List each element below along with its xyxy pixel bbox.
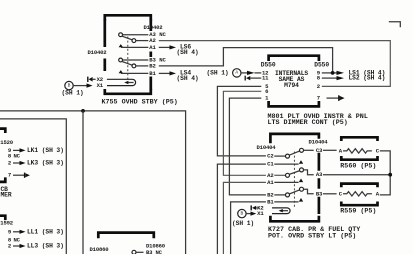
pin X2 terminal symbol [87, 77, 89, 82]
svg-text:LK3 (SH 3): LK3 (SH 3) [27, 160, 64, 167]
node A (SH 1) circle [233, 69, 241, 77]
svg-text:D10404: D10404 [257, 144, 277, 151]
switch arm B [289, 190, 300, 194]
svg-text:LTS DIMMER CONT (P5): LTS DIMMER CONT (P5) [268, 119, 348, 127]
wire K727 C1 going down [217, 164, 266, 254]
wire corner mark top right [389, 22, 401, 28]
wire A3 to resistor junction [323, 174, 390, 176]
svg-text:B2: B2 [267, 191, 274, 198]
svg-text:A: A [376, 190, 380, 197]
wire M801 pin 5 to K727 C2 [217, 86, 266, 155]
svg-text:POT. OVRD STBY LT (P5): POT. OVRD STBY LT (P5) [268, 232, 356, 240]
wire B2 to junction at pin 9 [159, 48, 333, 72]
svg-text:X1: X1 [97, 82, 104, 89]
junction dot pin 9 / B2 [331, 71, 335, 75]
wire B1 stub [121, 72, 148, 74]
svg-text:D10402: D10402 [144, 24, 164, 31]
wire B to X1 arrow [246, 213, 250, 215]
svg-text:D550: D550 [314, 62, 329, 69]
svg-text:(SH 4): (SH 4) [177, 75, 199, 82]
switch arm C [289, 151, 300, 155]
svg-text:C: C [339, 190, 343, 197]
resistor element R559 [343, 192, 372, 196]
svg-text:(SH 4): (SH 4) [177, 49, 199, 56]
svg-text:NC: NC [159, 31, 166, 38]
svg-text:B1: B1 [267, 198, 274, 205]
svg-text:1592: 1592 [0, 220, 13, 227]
svg-text:(SH 1): (SH 1) [207, 70, 229, 77]
svg-text:NC: NC [14, 237, 21, 244]
svg-text:C3: C3 [316, 147, 323, 154]
svg-text:B: B [241, 210, 244, 216]
svg-text:B: B [68, 82, 71, 88]
coil K755 [107, 79, 136, 85]
contact A1: NC triangle [119, 44, 123, 47]
switch pole A3: contact circle [119, 33, 123, 37]
svg-text:LK1 (SH 3): LK1 (SH 3) [27, 147, 64, 154]
svg-text:NC: NC [14, 153, 21, 160]
svg-text:LS2 (SH 4): LS2 (SH 4) [349, 75, 386, 82]
svg-text:D10860: D10860 [90, 246, 110, 253]
svg-text:D10404: D10404 [309, 138, 329, 145]
wire B1 to LS4 arrow [159, 72, 170, 74]
wire pin 8 to LS2 [322, 77, 337, 79]
svg-text:MER: MER [1, 192, 12, 199]
svg-text:A: A [235, 70, 238, 76]
svg-text:B1: B1 [149, 70, 156, 77]
svg-text:8: 8 [317, 75, 321, 82]
mechanical linkage (dashed) K755 [127, 37, 129, 80]
panel box left modules [0, 119, 66, 254]
svg-text:NC: NC [159, 57, 166, 64]
wire B3 stub [123, 59, 149, 61]
switch pole A2: contact circle [132, 39, 136, 43]
svg-text:(SH 1): (SH 1) [232, 220, 254, 227]
wire branch down from dot [82, 111, 84, 254]
resistor R559 box [341, 184, 377, 188]
module box M801 [269, 56, 319, 61]
switch pole C3 contact circle [300, 148, 304, 152]
svg-text:A1: A1 [267, 179, 274, 186]
wire R560 C to R559 A (right loop) [380, 151, 390, 195]
module box D1520 (cut) [0, 129, 5, 133]
node B (SH 1) circle [238, 209, 246, 217]
node B (SH 1) circle [65, 81, 73, 89]
svg-text:A1: A1 [149, 44, 156, 51]
wire B to X1 arrow [73, 85, 86, 87]
junction dot A3/resistor loop [388, 173, 392, 177]
svg-text:2: 2 [8, 243, 12, 250]
switch pole A3 contact circle [300, 168, 304, 172]
svg-text:C1: C1 [267, 161, 274, 168]
svg-text:11: 11 [262, 75, 269, 82]
wire K727 A1 going down [223, 182, 266, 254]
svg-text:X1: X1 [257, 210, 264, 217]
svg-text:9: 9 [8, 228, 12, 235]
switch arm A [289, 171, 300, 175]
junction dot on bus [81, 109, 85, 113]
relay box K727 [270, 134, 319, 143]
svg-text:NC: NC [156, 249, 163, 254]
svg-text:C: C [376, 147, 380, 154]
svg-text:A: A [339, 147, 343, 154]
switch arm A [122, 36, 133, 40]
svg-text:R560 (P5): R560 (P5) [340, 162, 376, 170]
svg-text:1520: 1520 [0, 139, 13, 146]
svg-text:(SH 1): (SH 1) [62, 89, 84, 96]
switch pole C2 contact circle [286, 154, 290, 158]
switch contact circle (cut) [132, 250, 136, 254]
wire A1 stub [121, 46, 148, 48]
pin X2 terminal symbol [250, 205, 252, 210]
svg-text:LL1 (SH 3): LL1 (SH 3) [27, 228, 64, 235]
svg-text:2: 2 [317, 83, 321, 90]
wire A1 to LS6 arrow [159, 46, 170, 48]
resistor element R560 [343, 149, 372, 153]
svg-text:M794: M794 [284, 82, 299, 89]
switch arm B [122, 62, 133, 66]
svg-text:A2: A2 [267, 172, 274, 179]
switch pole B2: contact circle [132, 64, 136, 68]
svg-text:2: 2 [8, 160, 12, 167]
svg-text:7: 7 [8, 172, 11, 179]
wire A3 stub [123, 34, 149, 36]
wire A2 to M801 pin 2 (right loop) [159, 41, 390, 87]
wire A to pin 12 [241, 72, 247, 74]
svg-text:B3: B3 [146, 249, 153, 254]
coil K727 [272, 208, 290, 214]
svg-text:B3: B3 [316, 190, 323, 197]
svg-text:B2: B2 [149, 62, 156, 69]
svg-text:D550: D550 [261, 62, 276, 69]
svg-text:LL3 (SH 3): LL3 (SH 3) [27, 243, 64, 250]
module box D10860 (cut) [98, 233, 154, 239]
mechanical linkage (dashed) K727 [293, 152, 295, 208]
wire M801 pin 6 to K727 A2 [223, 91, 266, 175]
switch pole A2 contact circle [286, 173, 290, 177]
wire K727 B1 going down [231, 202, 266, 254]
switch pole B3: contact circle [119, 58, 123, 62]
svg-text:R559 (P5): R559 (P5) [340, 208, 376, 216]
svg-text:A3: A3 [316, 171, 323, 178]
wire pin 9 to LS1 [322, 72, 337, 74]
svg-text:D10402: D10402 [88, 49, 108, 56]
wire M801 pin 1 to K727 B2 [229, 98, 266, 195]
resistor R560 box [341, 137, 377, 141]
switch pole B3 contact circle [300, 187, 304, 191]
contact B1: NC triangle [119, 70, 123, 73]
wire B2 stub [136, 65, 149, 67]
module box D1592 (cut) [0, 216, 5, 220]
svg-text:C2: C2 [267, 153, 274, 160]
svg-text:K755 OVHD STBY (P5): K755 OVHD STBY (P5) [102, 98, 178, 106]
switch pole B2 contact circle [286, 193, 290, 197]
svg-text:7: 7 [317, 95, 320, 102]
wire A2 stub [136, 40, 149, 42]
svg-text:1: 1 [265, 95, 269, 102]
relay box K755 [105, 15, 151, 20]
wire bus at y=111 with branch [0, 111, 186, 254]
